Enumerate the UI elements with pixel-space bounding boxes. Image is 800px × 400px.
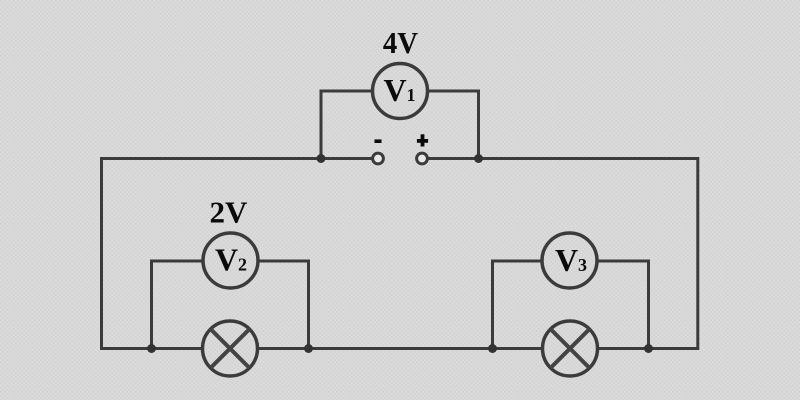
svg-text:4V: 4V — [383, 25, 419, 60]
svg-text:2V: 2V — [210, 194, 249, 229]
